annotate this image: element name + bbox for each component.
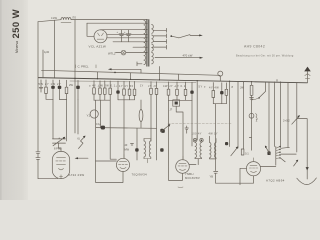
tube V4 right lead [189, 164, 198, 166]
trimmer right arrow [265, 146, 271, 156]
wire drop x100 [100, 100, 102, 128]
resistor small 01 [241, 149, 249, 155]
svg-text:A722 23W: A722 23W [69, 173, 85, 177]
svg-text:JY JY: JY JY [148, 84, 157, 88]
svg-text:1µW: 1µW [44, 51, 50, 54]
wire mid tap [133, 46, 148, 48]
resistor R16 [225, 83, 228, 104]
G.Z component [249, 113, 258, 122]
wire vertical x288 [287, 82, 289, 147]
bus line B [42, 70, 221, 75]
resistor R6 [109, 81, 112, 100]
svg-text:6): 6) [77, 136, 79, 140]
svg-text:JW: JW [240, 85, 244, 89]
wire drop x66 [66, 100, 68, 141]
vertical wire x75 [74, 20, 76, 133]
capacitor C3 [51, 80, 55, 99]
svg-text:Beachtung nur bei Ger. mit 30: Beachtung nur bei Ger. mit 30 per. Wickl… [236, 54, 294, 57]
transformer T1 secondary windings [152, 25, 154, 64]
inductor L1 [61, 18, 71, 23]
svg-text:AH9 C8042: AH9 C8042 [244, 44, 265, 48]
svg-text:A7Q2 AB94: A7Q2 AB94 [266, 178, 285, 182]
resistor R2 [65, 80, 68, 99]
ground anchor [297, 161, 317, 185]
dial lamp [121, 50, 126, 55]
wire drop x53 [52, 99, 54, 138]
riser x43 [42, 50, 44, 78]
wire tube left drop [87, 23, 94, 36]
wire tube top right [101, 29, 148, 31]
junction dot line B [114, 72, 116, 74]
tube V5 [246, 158, 260, 176]
band switch [260, 146, 296, 167]
small arrow right [294, 160, 299, 166]
wire drop x215 [215, 104, 217, 171]
wire drop x110 grid [110, 100, 116, 159]
capacitor C9 [210, 171, 218, 183]
phono jack circle [87, 110, 99, 118]
wire heater pair [70, 81, 196, 83]
resistor R13 [176, 82, 179, 100]
wire top left [38, 20, 61, 22]
svg-text:1Y: 1Y [140, 84, 143, 88]
capacitor C4 [58, 80, 62, 99]
svg-text:Minerva: Minerva [15, 41, 19, 53]
svg-text:4Y 4W: 4Y 4W [209, 86, 219, 90]
wire dark blob line [96, 123, 157, 129]
wire vertical x274 [274, 82, 276, 147]
wire lower right [113, 41, 148, 43]
svg-text:YB: YB [210, 175, 214, 179]
IF can 3 coils [210, 136, 217, 159]
svg-text:2W: 2W [69, 83, 73, 87]
svg-text:70Q/9V34: 70Q/9V34 [132, 173, 148, 177]
wire join group2 [94, 99, 110, 101]
capacitor C6 [116, 81, 119, 100]
preset pot [160, 124, 170, 132]
wire drop tube3 left [169, 100, 183, 180]
resistor R17 power [250, 82, 254, 151]
wire second to transformer [87, 22, 148, 24]
svg-text:MO18V8V: MO18V8V [185, 176, 200, 180]
svg-text:4F: 4F [125, 144, 128, 147]
volume pot [283, 115, 300, 124]
tube V3 [116, 155, 129, 172]
wire drop x124 [123, 100, 125, 159]
arrow into tube [75, 157, 88, 159]
wire drop x95 TA [95, 100, 97, 161]
mains lower lead [155, 53, 203, 58]
coil loop small [139, 100, 143, 128]
capacitor C8 [220, 83, 223, 104]
riser x178 [178, 74, 180, 80]
shielded resistor box [173, 100, 180, 106]
resistor R3 [93, 81, 96, 101]
wire tube2 bottom [96, 161, 123, 183]
transformer tap 1 [153, 28, 166, 32]
wire tick [249, 137, 251, 139]
svg-text:4W 1Y: 4W 1Y [209, 133, 219, 136]
resistor R12 [167, 82, 170, 100]
wire vertical x197 [196, 81, 198, 140]
capacitor C2 [124, 30, 131, 42]
svg-text:5Y o: 5Y o [199, 85, 206, 89]
capacitor small mid [225, 142, 228, 145]
wire vertical x229 [229, 82, 231, 147]
resistor R9 [133, 81, 136, 99]
resistor R15 [212, 83, 215, 104]
wire lamp left [116, 52, 122, 54]
transformer bottom stub [137, 62, 142, 66]
tube V4 [176, 156, 190, 173]
title 250 W [11, 9, 22, 38]
wire top to transformer [71, 19, 148, 21]
IF can 1 coils [135, 128, 165, 163]
svg-text:MW: MW [125, 149, 130, 152]
resistor R5 [104, 81, 107, 100]
wire join group5 [169, 99, 193, 101]
IF can 2 coils [193, 135, 203, 164]
resistor R4 [99, 81, 102, 100]
wire drop x192 [191, 100, 193, 146]
svg-text:C. PRCL: C. PRCL [78, 65, 89, 69]
bus tick [276, 80, 278, 82]
wire bottom right [216, 176, 254, 183]
cap labels mid [125, 144, 134, 152]
wire vertical x38 [36, 22, 61, 179]
wire join group6 [213, 103, 226, 105]
svg-text:/70: /70 [72, 16, 76, 20]
wire tube2 left [96, 160, 117, 162]
transformer tap 2 [153, 34, 166, 38]
small dash below [178, 186, 183, 189]
wire join group3 [118, 99, 135, 101]
svg-text:2+0.2: 2+0.2 [283, 118, 290, 122]
riser x159 [159, 67, 161, 81]
svg-text:Y1: Y1 [87, 113, 91, 117]
resistor R7 [123, 81, 126, 100]
transformer tap 4 [153, 45, 166, 49]
lead trimmer [59, 143, 62, 151]
capacitor small x41 [39, 80, 43, 92]
antenna arrow [304, 67, 311, 83]
wire vertical x296 [296, 82, 298, 152]
resistor R11 [155, 82, 158, 160]
wire drop tube3 top [176, 106, 183, 160]
transformer T1 core [147, 19, 149, 66]
wire join group1 [46, 98, 67, 100]
svg-text:VCL AZ1W: VCL AZ1W [89, 45, 107, 49]
resistor R8 [128, 81, 131, 100]
resistor R10 [150, 82, 153, 141]
wire vertical x243 [243, 82, 245, 149]
wire vertical x269 [268, 82, 270, 152]
tiny cap marks row [185, 126, 218, 136]
capacitor C7 [190, 82, 193, 100]
title Minerva [15, 41, 19, 53]
junction dots bus [74, 78, 281, 83]
resistor R1 [45, 80, 48, 99]
capacitor C5 [76, 80, 80, 99]
svg-text:250 W: 250 W [11, 9, 22, 38]
wire vertical x280 [280, 82, 282, 148]
svg-text:4W JY ∠Y 0.1: 4W JY ∠Y 0.1 [163, 84, 186, 88]
svg-text:o 4Y ∠W JW 0.1: o 4Y ∠W JW 0.1 [89, 84, 116, 88]
wire arrow L [108, 68, 141, 73]
trimmer arrow mid [231, 146, 238, 155]
svg-text:5W 2Y 1W 2Y: 5W 2Y 1W 2Y [39, 82, 62, 86]
wire lamp right [126, 52, 148, 54]
wire branch right [297, 119, 307, 161]
mains switch S1 [170, 34, 202, 38]
transformer T1 primary winding [144, 21, 146, 65]
bus line A [38, 78, 308, 83]
riser x97 [96, 72, 98, 79]
wire drop x78 [77, 100, 79, 134]
wire tube anode right [107, 35, 148, 38]
switch blade S2 [252, 82, 266, 100]
junction circle [218, 71, 223, 81]
tube V2 oval [52, 151, 69, 178]
zigzag arrow [79, 136, 86, 149]
capacitor C1 [117, 30, 125, 42]
svg-text:WTL2: WTL2 [108, 52, 116, 56]
resistor R14 [184, 82, 187, 100]
vertical wire x54 [54, 20, 56, 78]
svg-text:0.1: 0.1 [245, 151, 249, 155]
svg-text:4 kW: 4 kW [51, 16, 57, 20]
riser x130 [130, 73, 132, 79]
tube V5 left lead [240, 168, 247, 185]
wire vertical x238 [237, 82, 239, 148]
svg-text:470±W: 470±W [183, 53, 193, 57]
transformer tap 3 [153, 40, 166, 44]
svg-text:100 4Y: 100 4Y [192, 133, 202, 136]
dashed line [168, 123, 232, 125]
svg-text:0.1µ: 0.1µ [96, 123, 101, 126]
trimmer cap left [53, 137, 66, 151]
bracket label C PRCL [76, 65, 97, 69]
rectifier tube V1 [94, 30, 107, 43]
